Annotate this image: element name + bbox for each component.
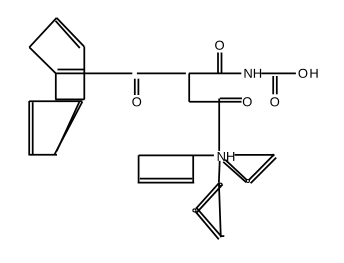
ring pentagon double bond apex-right inner bbox=[56, 21, 80, 48]
ring pentagon edge left-bottom bbox=[29, 47, 56, 73]
lower-left ring diagonal inner bbox=[57, 102, 80, 151]
bond C3corner-C4 and C4=O3 lower line bbox=[189, 101, 241, 103]
lower triangle stub at V5 bbox=[221, 235, 225, 237]
lower triangle edge V4-V5 line a bbox=[195, 212, 218, 240]
carbonyl C6=O4 double bond line a bbox=[272, 76, 274, 94]
atom dot V1 bbox=[272, 154, 275, 157]
carbonyl C2=O2 double bond line b bbox=[221, 53, 223, 74]
square ring left vertical bbox=[55, 73, 57, 99]
lower-left ring left vertical outer bbox=[28, 101, 30, 155]
ring pentagon double bond apex-right outer bbox=[57, 18, 85, 47]
label NH lower bbox=[218, 152, 235, 161]
label NH upper bbox=[244, 69, 261, 78]
lower triangle edge V3-V5 bbox=[219, 182, 221, 237]
rect ring left vertical bbox=[138, 155, 140, 183]
carbonyl C1=O1 double bond line b bbox=[137, 79, 139, 95]
right triangle edge N-V2 line a bbox=[225, 160, 247, 180]
carbonyl C2=O2 double bond line a bbox=[217, 53, 219, 74]
pentagon bottom double bond inner line bbox=[58, 69, 85, 71]
carbonyl C4=O3 upper line bbox=[220, 97, 242, 99]
lower triangle edge V3-V4 line b bbox=[197, 184, 223, 212]
bond NH-C6-OH bbox=[261, 72, 296, 74]
carbonyl C1=O1 double bond line a bbox=[134, 79, 136, 95]
lower triangle edge V3-V4 line a bbox=[196, 182, 220, 208]
label O1 bbox=[132, 97, 141, 106]
lower-left ring left vertical inner bbox=[32, 102, 34, 154]
atom ring V2 bbox=[246, 180, 249, 183]
lower triangle edge V4-V5 line b bbox=[197, 208, 222, 236]
label O3 bbox=[243, 97, 252, 106]
carbonyl C6=O4 double bond line b bbox=[276, 76, 278, 94]
bond pentagon bottom + chain to C1 bbox=[56, 72, 133, 74]
rect ring right vertical bbox=[192, 155, 194, 183]
label OH bbox=[299, 69, 318, 78]
right triangle edge V1-V2 line a bbox=[249, 155, 273, 180]
rect ring bottom edge outer bbox=[138, 182, 194, 184]
bond C3-C2-N bbox=[189, 72, 241, 74]
lower-left ring diagonal outer bbox=[54, 102, 82, 155]
ring right vertical edge bbox=[83, 47, 85, 100]
bond C4 down to NH2 bbox=[218, 99, 220, 151]
atom ring V4 bbox=[193, 209, 196, 212]
rect ring top edge + bond to N bbox=[139, 154, 214, 156]
square ring bottom edge bbox=[55, 98, 84, 100]
rect ring bottom edge inner bbox=[140, 178, 192, 180]
bond C1-C3 bbox=[137, 72, 186, 74]
label O4 bbox=[270, 97, 279, 106]
right triangle edge V1-V2 line b bbox=[251, 158, 277, 184]
lower-left ring bottom edge bbox=[29, 154, 58, 156]
ring pentagon edge apex-left bbox=[29, 18, 56, 47]
lower-left ring top edge bbox=[29, 100, 82, 102]
bond N down to lower triangle V3 bbox=[218, 161, 221, 182]
label O2 bbox=[215, 41, 224, 50]
bond N to right triangle vertex V1 bbox=[235, 154, 273, 156]
atom ring V3 bbox=[219, 183, 222, 186]
bond C3 corner vertical bbox=[188, 73, 190, 101]
right triangle edge N-V2 line b bbox=[223, 162, 246, 182]
